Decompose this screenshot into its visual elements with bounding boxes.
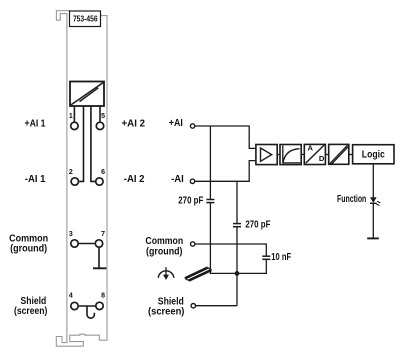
junction dot on C2 line and ground bus: [235, 271, 240, 276]
svg-text:3: 3: [69, 231, 73, 238]
internal ground bar: [93, 267, 106, 269]
Function LED D1: [370, 197, 380, 205]
svg-text:+AI 2: +AI 2: [122, 118, 146, 129]
internal ground bus wire: [210, 272, 267, 274]
wire +AI branch down through C1 to internal bus: [209, 126, 211, 199]
svg-text:270 pF: 270 pF: [178, 195, 203, 206]
contact 1: [71, 122, 78, 129]
svg-text:270 pF: 270 pF: [245, 220, 270, 231]
svg-text:5: 5: [101, 113, 105, 120]
svg-text:2: 2: [69, 169, 73, 176]
svg-text:Function: Function: [337, 194, 366, 205]
svg-text:-AI 2: -AI 2: [124, 174, 145, 185]
wire C3 down to ground bus: [265, 260, 267, 275]
galvanic isolation box (double diagonal): [329, 144, 349, 164]
svg-text:A: A: [307, 143, 313, 152]
svg-text:D: D: [319, 154, 325, 163]
wire Logic down to Function LED: [372, 164, 374, 198]
wire box A1 to filter: [277, 154, 280, 156]
svg-text:10 nF: 10 nF: [271, 252, 291, 263]
contact 8: [96, 302, 103, 309]
DIN rail contact symbol: [185, 268, 212, 281]
svg-text:+AI 1: +AI 1: [25, 118, 46, 129]
internal ground bar (Function): [367, 237, 379, 239]
Logic box: [353, 145, 394, 164]
transducer U1 (measuring converter box): [70, 82, 104, 107]
label box 753-456: [70, 11, 101, 27]
wire contact 3 to contact 7: [79, 243, 95, 245]
wire contact 4 to contact 8: [79, 305, 96, 307]
filter box (curve): [280, 145, 301, 165]
wire LED to internal ground bar: [372, 203, 374, 238]
wire filter to A/D: [301, 154, 304, 156]
functional earth symbol (arc with arrow): [158, 267, 174, 280]
wire box to contact 2: [79, 106, 83, 181]
contact 6: [96, 178, 103, 185]
svg-text:8: 8: [101, 293, 105, 300]
svg-text:6: 6: [101, 169, 105, 176]
wire C2 down to shield corner: [236, 227, 238, 306]
contact 2: [71, 178, 78, 185]
svg-text:753-456: 753-456: [73, 15, 98, 24]
contact 5: [96, 122, 103, 129]
svg-text:(screen): (screen): [14, 306, 47, 317]
svg-text:-AI 1: -AI 1: [25, 174, 46, 185]
wire box to contact 6: [91, 106, 95, 181]
wire A/D to isolation: [325, 154, 328, 156]
wire contact 7 down to internal ground bar: [98, 248, 100, 268]
svg-text:(ground): (ground): [146, 246, 183, 257]
svg-text:4: 4: [69, 293, 73, 300]
wire C1 to ground bus: [209, 203, 211, 274]
wire stub box to contact 1: [73, 106, 75, 122]
capacitor C2 270 pF: [233, 224, 241, 227]
capacitor C3 10 nF: [262, 256, 270, 259]
svg-text:Logic: Logic: [362, 149, 385, 160]
wire -AI branch down through C2: [236, 181, 238, 223]
svg-text:7: 7: [101, 231, 105, 238]
svg-text:(ground): (ground): [10, 244, 47, 255]
wire Common to 10nF branch: [195, 244, 266, 256]
A/D converter box: [304, 143, 325, 164]
wire Shield to C2/ground line: [196, 305, 238, 307]
contact 3: [71, 240, 78, 247]
amplifier box A1: [256, 145, 277, 165]
svg-text:1: 1: [69, 113, 73, 120]
wire +AI to input network: [195, 126, 256, 148]
svg-text:(screen): (screen): [148, 307, 184, 318]
wire isolation to Logic: [349, 154, 353, 156]
svg-text:-AI: -AI: [171, 174, 184, 185]
svg-text:+AI: +AI: [169, 118, 183, 129]
shield clamp hook on wire 4-8: [87, 306, 94, 318]
wire -AI to input network: [195, 161, 256, 182]
contact 7: [95, 240, 102, 247]
module outline 753-456 housing: [56, 11, 107, 347]
wire stub box to contact 5: [99, 106, 101, 122]
capacitor C1 270 pF: [206, 200, 214, 203]
contact 4: [71, 302, 78, 309]
